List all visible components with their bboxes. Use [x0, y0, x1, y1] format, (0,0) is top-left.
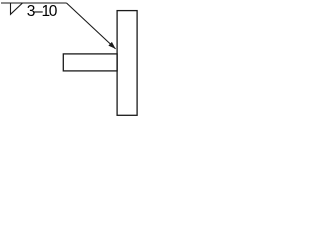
fillet weld symbol [11, 3, 23, 14]
horizontal plate [63, 54, 117, 71]
reference line [1, 2, 67, 4]
leader line [67, 3, 116, 49]
svg-text:3–10: 3–10 [27, 3, 58, 20]
vertical plate [117, 11, 137, 116]
arrowhead [108, 42, 115, 49]
